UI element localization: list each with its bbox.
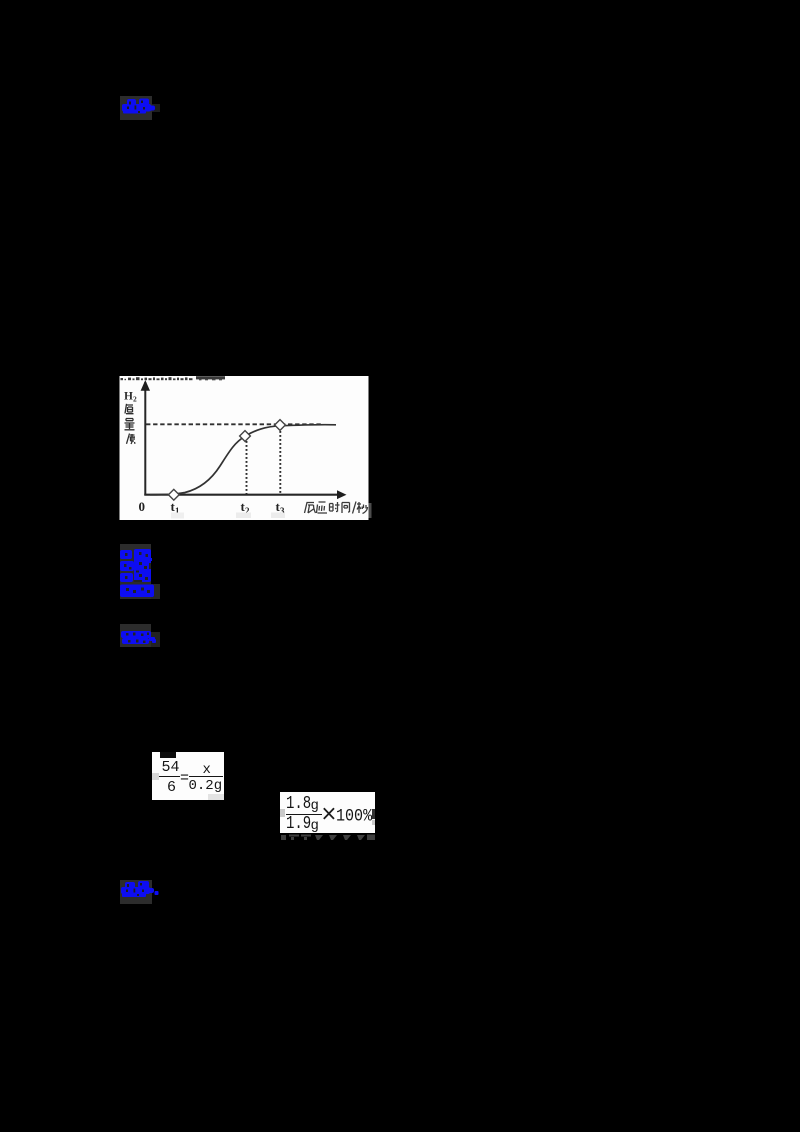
- svg-text:0: 0: [139, 499, 146, 514]
